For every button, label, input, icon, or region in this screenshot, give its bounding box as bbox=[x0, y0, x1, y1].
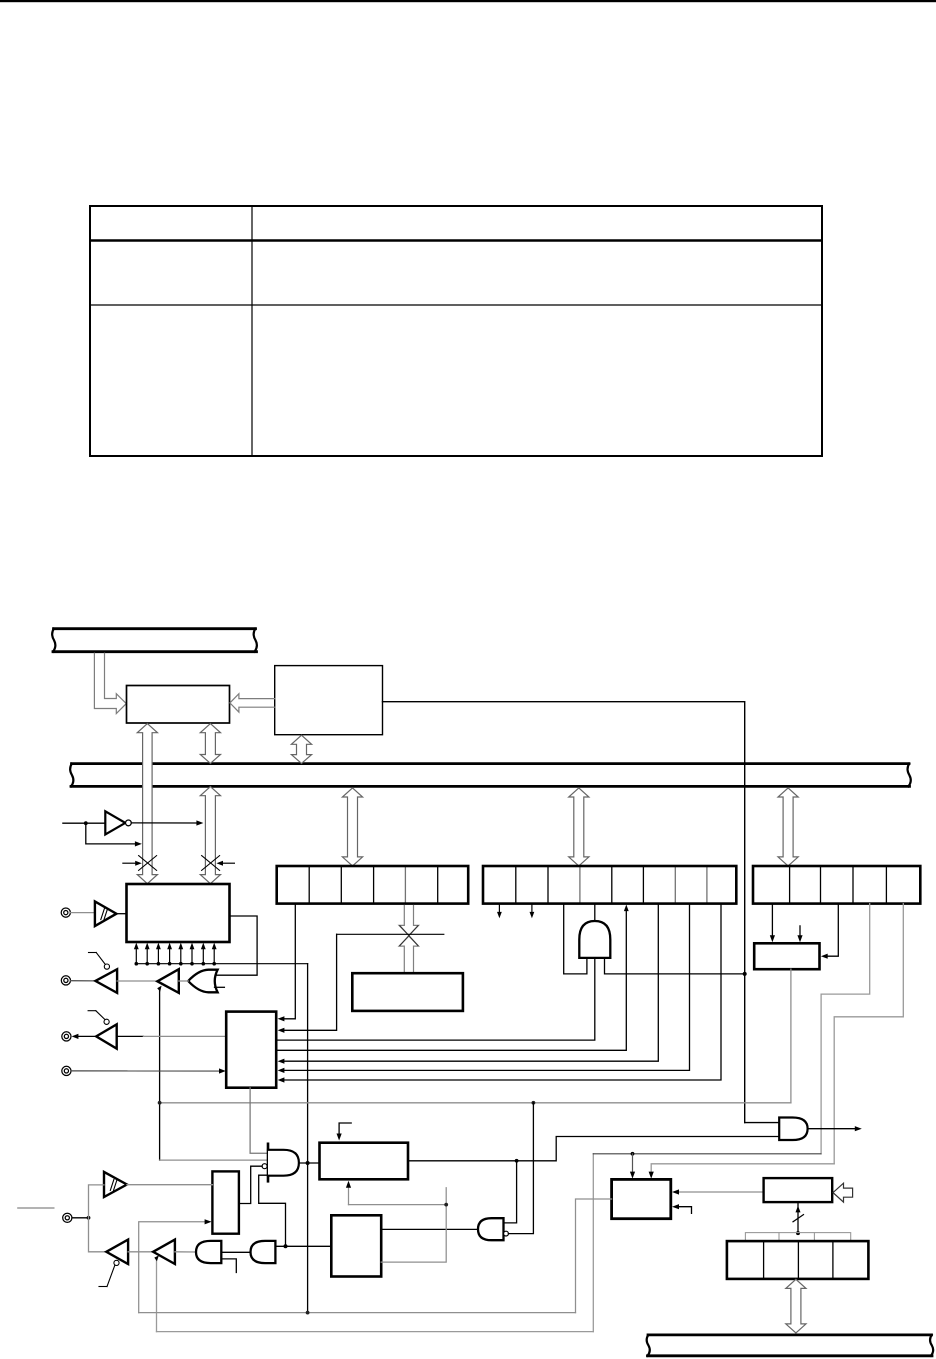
net G2 output to selector (plain c) bbox=[278, 958, 595, 1040]
enable arrow into Q2 bottom bbox=[157, 986, 161, 1161]
wire G5 top input riser bbox=[504, 1161, 517, 1223]
fat arrow FA2a box1 to bus bbox=[200, 724, 220, 764]
control box2 (top big box) bbox=[275, 666, 383, 735]
pin P3 bbox=[62, 1032, 71, 1041]
wire Q2 to OR output bbox=[179, 980, 188, 982]
wire Q4 to Q5 bbox=[128, 1251, 153, 1253]
wire box V to NAND-L dome bbox=[381, 1228, 478, 1230]
arrow register C bit3 into box Y right bbox=[821, 904, 838, 959]
fat arrow FA2b bus to counter bbox=[200, 787, 220, 884]
net register C bit4 (gray staircase to box W and tri5 enable) bbox=[157, 904, 870, 1332]
net X-wire to selector (arrow b) bbox=[278, 934, 337, 1033]
enable hook on Q3 bbox=[88, 1011, 109, 1025]
fat arrow FA4 bus to register A bbox=[342, 788, 362, 866]
wire P5 to junction bbox=[72, 1217, 88, 1219]
compare box under register A bbox=[352, 973, 463, 1011]
wire U3 output to FA2b switch bbox=[131, 820, 203, 825]
isolated gray tick bbox=[18, 1207, 54, 1209]
tri-state buffer Q1 (output, points left) bbox=[95, 969, 117, 993]
wire schmitt1 to counter bbox=[116, 913, 126, 915]
fat arrow FA7 register D to bottom bus bbox=[786, 1279, 806, 1333]
inverter U3 bbox=[105, 811, 131, 834]
junction dot box U wire / NAND-L riser bbox=[515, 1159, 519, 1163]
page top rule bbox=[0, 0, 936, 2]
net register B bit7 to selector (arrow f) bbox=[278, 904, 690, 1073]
bus banner (top-left data bus) bbox=[52, 629, 257, 652]
pin P4 bbox=[62, 1066, 71, 1075]
input wire to U3 bbox=[63, 822, 105, 824]
net register B bit6 to selector (arrow e) bbox=[278, 904, 659, 1064]
wire P2 to tri-state buffer bbox=[71, 980, 96, 982]
X switch arrows register A to compare box bbox=[399, 906, 419, 973]
wire Q2-enable vertical to NAND-R input2 bbox=[160, 1159, 267, 1161]
feeder line with 8 up arrows into counter bbox=[136, 948, 307, 964]
X switch mark on FA1 bbox=[139, 856, 157, 871]
net register B bit8 to selector (arrow g) bbox=[278, 904, 721, 1083]
block arrow from banner into register box1 bbox=[94, 653, 126, 713]
branch arrow to FA1 switch bbox=[86, 823, 142, 846]
wire G2 input left from register B bit bbox=[564, 904, 587, 974]
small box X bbox=[764, 1178, 833, 1202]
schmitt buffer U1 bbox=[95, 901, 117, 926]
wire box X bottom to register D tabs bbox=[793, 1202, 804, 1235]
hook arrow into box U top bbox=[337, 1123, 352, 1141]
stub arrows under register B bits 1,2 bbox=[497, 904, 534, 919]
wire counter right edge to OR gate top input bbox=[216, 916, 257, 975]
wire through X mark bbox=[337, 933, 444, 935]
stub hook from L1 bbox=[221, 1259, 236, 1273]
fat arrow FA5 bus to register B bbox=[569, 788, 589, 866]
gray rail bottom (to latch T arrow) bbox=[139, 1222, 576, 1313]
arrow register C bit1 into box Y bbox=[770, 904, 775, 943]
floating arrow into box Y bbox=[797, 926, 802, 942]
selector box S bbox=[226, 1012, 276, 1088]
schmitt buffer U2 bbox=[104, 1172, 127, 1197]
bottom bus bbox=[647, 1335, 934, 1356]
P5 riser to U2 input and to buffer Q4 bbox=[89, 1185, 107, 1252]
table frame bbox=[90, 206, 822, 456]
wire G3 bottom tap down to gate L2 output net bbox=[259, 1175, 286, 1246]
junction dot G3 output / feeder vertical bbox=[306, 1161, 310, 1165]
junction dot gray rail / NAND-L riser bbox=[532, 1101, 536, 1105]
junction dot P5 bbox=[87, 1216, 91, 1220]
main internal bus bbox=[70, 764, 911, 787]
enable arrow into FA1 X bbox=[123, 861, 142, 866]
fat arrow FA3 big box to bus bbox=[291, 735, 311, 763]
wire G2 input right from long vertical bbox=[605, 959, 745, 974]
enable arrow into FA2b X bbox=[216, 861, 234, 866]
enable hook on Q1 bbox=[89, 953, 110, 970]
arrow from buffer Q3 to P3 bbox=[72, 1034, 97, 1039]
gray rail from box Y bottom across diagram bbox=[160, 969, 791, 1103]
tab row over register D bbox=[745, 1233, 850, 1241]
junction dot on staircase bbox=[631, 1152, 635, 1156]
register box1 (top small box) bbox=[127, 686, 230, 724]
buffer Q5 (points left) bbox=[153, 1240, 175, 1264]
AND gate L2 (dome left) bbox=[251, 1241, 276, 1263]
hook arrow into box W right bbox=[672, 1204, 692, 1213]
NAND-R gate G3 bbox=[262, 1144, 299, 1182]
block arrow big box to box1 bbox=[230, 694, 275, 712]
long vertical from feeder down to bottom gray rail bbox=[307, 964, 309, 1313]
control box V bbox=[331, 1215, 381, 1276]
counter box bbox=[127, 884, 230, 942]
G4 output arrow bbox=[808, 1126, 862, 1131]
buffer Q2 (points left) bbox=[157, 969, 178, 993]
gray feedback net box V to box U bottom arrow bbox=[349, 1186, 447, 1262]
wire G3 output to box U bbox=[299, 1162, 320, 1164]
wire L1 to L2 bbox=[221, 1251, 250, 1253]
wire Q1 to Q2 bbox=[117, 980, 157, 982]
wire L2 to box V bbox=[275, 1245, 331, 1247]
wire Q3 input from selector box bbox=[117, 1035, 144, 1037]
X switch mark on FA2b bbox=[202, 856, 220, 871]
enable arrowhead into buffer Q5 bbox=[154, 1255, 159, 1261]
wire box U right to AND G4 lower input bbox=[408, 1137, 779, 1161]
register A bbox=[277, 866, 469, 904]
register B bbox=[483, 866, 736, 904]
arrow from dot into box W top bbox=[630, 1154, 635, 1179]
net selector bottom to NAND-R input1 bbox=[250, 1088, 267, 1154]
register D bbox=[727, 1241, 869, 1279]
NAND-L gate G5 (dome left, bubble right) bbox=[478, 1218, 508, 1240]
net register C bit5 (gray staircase to box W top) bbox=[651, 904, 903, 1174]
junction dot on Q2 enable vertical bbox=[158, 1101, 162, 1105]
AND gate G4 bbox=[779, 1118, 807, 1141]
wire U2 to latch T bbox=[127, 1184, 212, 1186]
control box W bbox=[612, 1179, 671, 1218]
wire P4 into selector box bbox=[71, 1068, 226, 1073]
junction dot L2/G3 tap bbox=[284, 1244, 288, 1248]
tri-state buffer Q4 (points left) bbox=[106, 1240, 128, 1264]
wire Q5 to gate L1 bbox=[175, 1251, 196, 1253]
AND gate L1 (dome left) bbox=[196, 1241, 221, 1263]
block arrow into box X right bbox=[833, 1183, 853, 1202]
net register A bit to selector (arrow a) bbox=[278, 904, 296, 1022]
gray net into box W left bbox=[576, 1199, 612, 1313]
pin P5 bbox=[63, 1213, 72, 1222]
latch box T (tall) bbox=[212, 1171, 239, 1233]
pin P2 bbox=[61, 976, 70, 985]
register C bbox=[753, 866, 920, 904]
AND gate G2 under register B (dome up) bbox=[579, 921, 610, 958]
junction dot on U3 input bbox=[84, 821, 88, 825]
arrow small box X into box W bbox=[672, 1189, 764, 1194]
wire big box right to long vertical bbox=[383, 702, 745, 1123]
buffer Q3 (points left) bbox=[96, 1024, 117, 1048]
wire G2 dome to register B bbox=[594, 904, 596, 921]
OR gate G1 (points left) bbox=[188, 970, 224, 993]
wire G5 bubble riser to gray rail bbox=[509, 1103, 534, 1234]
fat arrow FA6 bus to register C bbox=[778, 788, 798, 866]
control box U bbox=[320, 1143, 409, 1180]
X mark on compare path bbox=[400, 926, 418, 946]
pin P1 bbox=[61, 908, 70, 917]
net register B bit5 to selector (plain d, with up arrow) bbox=[278, 905, 629, 1051]
wire P1 to schmitt1 bbox=[71, 912, 95, 914]
mode box Y under register C bbox=[754, 943, 819, 969]
wire G3 bubble input from latch T output bbox=[239, 1166, 262, 1203]
wire long vertical into G4 top input bbox=[745, 1122, 780, 1124]
fat arrow FA1 box1 to counter (through bus) bbox=[137, 724, 157, 884]
enable hook on Q4 bbox=[99, 1260, 119, 1286]
junction dot long vertical bbox=[743, 972, 747, 976]
